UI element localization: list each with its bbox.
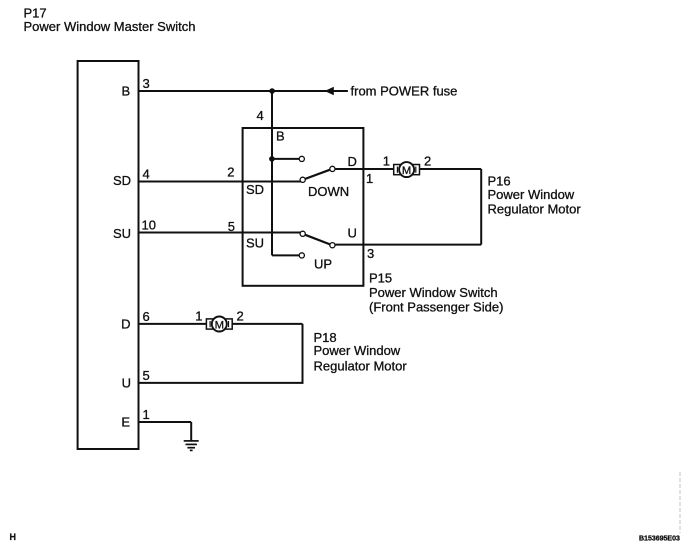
svg-text:B153695E03: B153695E03 xyxy=(639,535,680,542)
wire D: P17 pin 6 to P18 motor xyxy=(139,323,207,325)
switch blade DOWN xyxy=(305,170,330,179)
contact circle DOWN SD side xyxy=(300,177,305,182)
connector box P17 (Power Window Master Switch) xyxy=(78,61,139,449)
svg-text:1: 1 xyxy=(143,407,150,422)
contact circle UP B side xyxy=(299,253,304,258)
contact circle UP U side xyxy=(330,243,335,248)
svg-text:UP: UP xyxy=(314,257,332,272)
wire from P16 motor to right corner xyxy=(419,168,481,170)
connector box P15 (Power Window Switch) xyxy=(243,128,364,286)
svg-text:Power Window: Power Window xyxy=(314,343,401,358)
svg-text:SD: SD xyxy=(113,173,131,188)
wire SD: P17 pin 4 to P15 pin 2 xyxy=(139,181,301,183)
wire D: DOWN contact to P16 motor xyxy=(335,168,394,170)
junction node on wire B xyxy=(269,88,275,94)
motor P16 body xyxy=(399,162,414,177)
svg-text:from POWER fuse: from POWER fuse xyxy=(351,83,458,98)
svg-text:1: 1 xyxy=(195,309,202,324)
svg-text:H: H xyxy=(10,532,17,542)
ground symbol xyxy=(184,441,199,451)
svg-text:3: 3 xyxy=(367,246,374,261)
wire stub B to UP fixed contact xyxy=(272,254,299,256)
svg-text:10: 10 xyxy=(142,218,156,233)
label P16 Power Window Regulator Motor xyxy=(488,173,582,216)
contact circle DOWN B side xyxy=(299,156,304,161)
wire stub B to DOWN fixed contact xyxy=(272,158,299,160)
wire P16 return vertical xyxy=(480,169,482,245)
svg-text:B: B xyxy=(276,129,285,144)
svg-text:Regulator Motor: Regulator Motor xyxy=(314,358,408,373)
motor P16 brush right xyxy=(413,165,420,175)
motor P18 brush right xyxy=(225,319,232,329)
svg-text:6: 6 xyxy=(143,309,150,324)
svg-text:Regulator Motor: Regulator Motor xyxy=(488,201,582,216)
wire U: P18 return to P17 pin 5 xyxy=(139,382,304,384)
contact circle DOWN D side xyxy=(330,166,335,171)
svg-text:2: 2 xyxy=(424,154,431,169)
switch blade UP xyxy=(305,235,330,245)
motor P18 brush tick right xyxy=(228,321,230,327)
motor P16 brush left xyxy=(394,165,401,175)
wire from P18 motor to right corner xyxy=(232,323,303,325)
arrowhead from POWER fuse xyxy=(325,87,334,95)
svg-text:M: M xyxy=(215,319,224,331)
motor P16 brush tick right xyxy=(415,167,417,173)
wire U: UP contact to P16 motor return xyxy=(335,244,481,246)
label P15 Power Window Switch (Front Passenger Side) xyxy=(369,270,503,314)
motor P18 body xyxy=(212,317,227,332)
svg-text:E: E xyxy=(121,415,130,430)
svg-text:D: D xyxy=(121,317,130,332)
svg-text:Power Window Switch: Power Window Switch xyxy=(369,285,498,300)
svg-text:SD: SD xyxy=(246,182,264,197)
wire E: P17 pin 1 to ground xyxy=(139,421,191,423)
contact circle UP SU side xyxy=(300,231,305,236)
faint page edge mark bottom right xyxy=(679,472,681,533)
wire P18 return vertical xyxy=(302,324,304,383)
svg-text:P15: P15 xyxy=(369,270,392,285)
svg-text:Power Window Master Switch: Power Window Master Switch xyxy=(24,19,196,34)
motor P18 brush tick left xyxy=(209,321,211,327)
svg-text:4: 4 xyxy=(143,167,150,182)
svg-text:3: 3 xyxy=(143,76,150,91)
svg-text:(Front Passenger Side): (Front Passenger Side) xyxy=(369,299,503,314)
svg-text:D: D xyxy=(348,154,357,169)
svg-text:U: U xyxy=(122,376,131,391)
svg-text:2: 2 xyxy=(227,165,234,180)
label P18 Power Window Regulator Motor xyxy=(314,330,408,373)
svg-text:1: 1 xyxy=(366,171,373,186)
svg-text:B: B xyxy=(122,84,131,99)
wire B vertical drop into P15 pin 4 xyxy=(271,91,273,255)
svg-text:M: M xyxy=(402,165,411,177)
svg-text:U: U xyxy=(348,226,357,241)
junction node B branch inside P15 xyxy=(269,156,275,162)
svg-text:DOWN: DOWN xyxy=(308,184,349,199)
motor P18 brush left xyxy=(206,319,213,329)
motor P16 brush tick left xyxy=(396,167,398,173)
svg-text:1: 1 xyxy=(383,154,390,169)
svg-text:SU: SU xyxy=(113,226,131,241)
wire SU: P17 pin 10 to P15 pin 5 xyxy=(139,232,301,234)
title P17 Power Window Master Switch xyxy=(24,6,196,35)
svg-text:5: 5 xyxy=(228,219,235,234)
wire B: P17 pin 3 to POWER fuse feed xyxy=(139,90,348,92)
wire E vertical drop xyxy=(190,422,192,441)
svg-text:4: 4 xyxy=(257,108,264,123)
svg-text:2: 2 xyxy=(237,309,244,324)
svg-text:SU: SU xyxy=(246,236,264,251)
svg-text:Power Window: Power Window xyxy=(488,187,575,202)
svg-text:5: 5 xyxy=(143,368,150,383)
